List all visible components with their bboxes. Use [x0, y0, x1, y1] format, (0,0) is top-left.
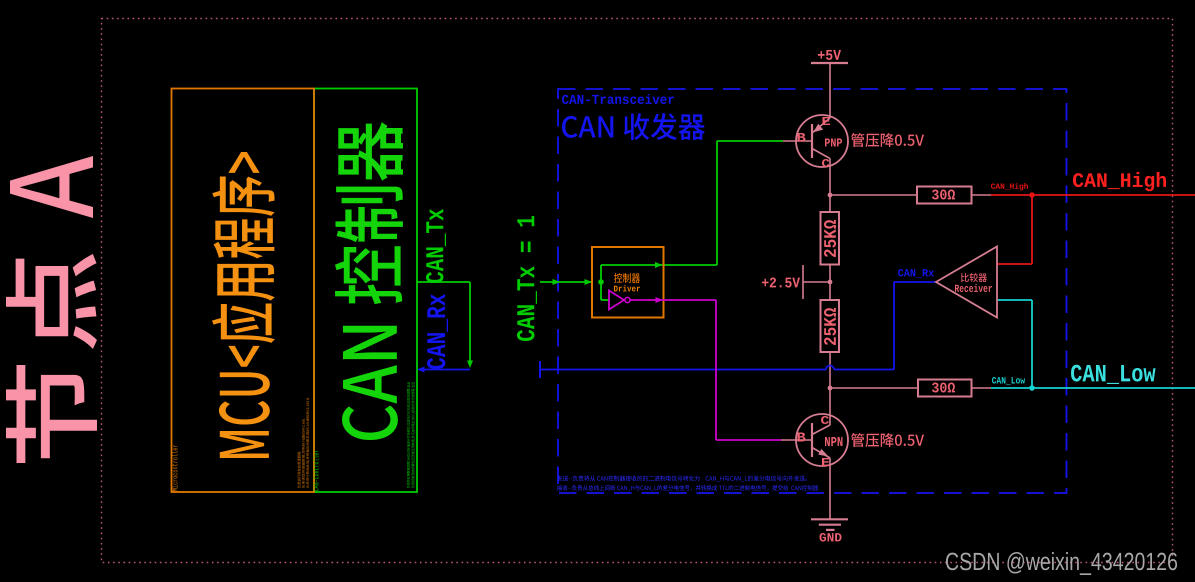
note line 1 (blue)	[557, 476, 807, 482]
Q2 label B	[798, 433, 806, 442]
ground label GND	[819, 533, 841, 542]
wire CAN_High bus	[991, 194, 1195, 196]
title CAN-Transceiver	[562, 94, 674, 104]
comparator label 比较器	[961, 273, 987, 282]
transistor Q2 circle	[796, 414, 848, 466]
tiny note column (green) 1	[407, 382, 411, 488]
net label CAN_High (big)	[1073, 172, 1166, 191]
arrow TX 2	[585, 279, 593, 285]
wire node H to R1	[829, 195, 831, 212]
wire CAN_Tx horizontal	[417, 281, 470, 283]
Q2 label NPN	[825, 437, 842, 446]
Q2 drop note 管压降0.5V	[851, 433, 924, 447]
Q1 label PNP	[825, 139, 842, 147]
tiny note column (orange) 1	[297, 451, 300, 488]
driver label Driver	[614, 285, 640, 291]
label CAN_Tx = 1	[517, 216, 537, 341]
wire Q1 collector down	[829, 159, 831, 196]
Q1 emitter arrow (PNP)	[813, 124, 823, 133]
wire node L to Q2	[829, 388, 831, 425]
power +2.5V bar	[802, 265, 804, 299]
resistor R2 25KΩ box	[821, 300, 840, 352]
resistor R3 30Ω box	[917, 187, 972, 204]
Q2 base lead	[781, 439, 812, 441]
wire inverter out	[630, 299, 716, 301]
watermark CSDN @weixin_43420126	[946, 552, 1177, 575]
MCU label MCU<应用程序>	[212, 152, 275, 458]
MCU box U1 (orange)	[172, 89, 315, 493]
net label CAN_High (small)	[991, 183, 1028, 190]
ground bar 3	[826, 529, 835, 531]
wire CAN_Low to comparator horiz	[997, 299, 1032, 301]
Q1 emitter line	[812, 118, 830, 133]
wire R3 out	[972, 194, 992, 196]
junction CAN_High	[1029, 192, 1035, 198]
wire +2.5V to node M	[803, 281, 830, 283]
resistor R3 value 30Ω	[932, 189, 955, 199]
Q1 base lead	[783, 140, 812, 142]
net label CAN_Rx	[427, 294, 448, 369]
junction node H	[828, 193, 833, 198]
power +5V label	[818, 50, 841, 60]
junction TX node	[598, 279, 604, 285]
net label CAN_Tx	[426, 209, 446, 283]
Q1 drop note 管压降0.5V	[851, 133, 924, 147]
Q2 emitter arrow (NPN)	[818, 449, 828, 457]
Q2 collector line	[812, 425, 830, 435]
wire R2 to node L	[829, 352, 831, 388]
wire magenta to NPN base	[716, 439, 781, 441]
arrow inverter out	[656, 297, 664, 303]
Q1 label E	[822, 117, 829, 125]
resistor R4 value 30Ω	[932, 382, 955, 392]
wire TX across driver	[601, 264, 717, 266]
driver box U3	[592, 247, 664, 318]
Q2 emitter line	[812, 448, 830, 459]
wire TX to inverter	[600, 282, 602, 300]
ground bar 2	[819, 524, 841, 526]
Q1 base bar	[811, 124, 813, 158]
CAN controller label CAN 控制器	[335, 122, 403, 440]
tiny note column (orange) 3	[306, 397, 309, 488]
wire CAN_Low bus	[991, 387, 1195, 389]
power +5V bar	[811, 62, 848, 64]
wire CAN_High to comparator vert	[1031, 195, 1033, 264]
wire CAN_Rx stub	[424, 369, 470, 371]
Q2 label C	[821, 416, 829, 424]
wire CAN_Low to comparator vert	[1031, 300, 1033, 388]
tiny note column (orange) 2	[302, 418, 305, 488]
tiny label CAN-Controller	[313, 450, 319, 491]
wire R4 out	[972, 387, 992, 389]
arrow CAN_Tx down	[467, 361, 473, 369]
comparator U4 triangle	[936, 247, 997, 318]
Q1 collector line	[812, 149, 830, 159]
resistor R1 value 25KΩ	[824, 220, 836, 257]
wire TX to PNP base	[717, 140, 783, 142]
junction node M	[828, 280, 833, 285]
wire TX up inside driver	[600, 265, 602, 282]
wire Q2 emitter down	[829, 458, 831, 519]
Q1 label B	[798, 133, 806, 141]
wire to R3	[830, 194, 917, 196]
wire CAN_Tx vertical	[469, 282, 471, 362]
wire R1 to node M	[829, 265, 831, 283]
wire RX to comparator	[894, 281, 936, 283]
resistor R2 value 25KΩ	[824, 308, 836, 345]
note line 2 (blue)	[557, 485, 818, 491]
comparator label Receiver	[955, 284, 992, 292]
ground bar 1	[811, 518, 848, 520]
wire node M to R2	[829, 282, 831, 300]
wire RX hop over pink	[826, 366, 834, 370]
Q2 label E	[822, 458, 829, 466]
inverter bubble	[625, 297, 630, 302]
CAN controller box U2 (green)	[314, 89, 417, 493]
Q1 label C	[822, 159, 830, 167]
junction CAN_Low	[1029, 385, 1035, 391]
CAN transceiver dashed box	[558, 89, 1067, 493]
wire magenta riser	[715, 300, 717, 440]
arrow TX 1	[553, 279, 561, 285]
title CAN 收发器	[562, 113, 705, 140]
net label CAN_Low (big)	[1071, 365, 1156, 384]
wire to R4	[830, 387, 918, 389]
arrow TX 3	[655, 262, 663, 268]
driver label 控制器	[614, 273, 640, 283]
node A label 节点 A	[6, 365, 97, 463]
wire RX bus terminal tick	[539, 361, 541, 378]
junction node L	[828, 386, 833, 391]
wire CAN_High to comparator horiz	[997, 263, 1032, 265]
wire RX bus left	[540, 369, 826, 371]
power +2.5V label	[762, 278, 800, 288]
net label CAN_Rx (transceiver)	[898, 269, 934, 278]
wire RX riser	[893, 282, 895, 370]
resistor R1 25KΩ box	[821, 212, 840, 265]
tiny label Microcontroller	[172, 445, 178, 491]
tiny note column (green) 2	[411, 382, 415, 488]
Q2 base bar	[811, 423, 813, 457]
net label CAN_Low (small)	[992, 377, 1025, 385]
transistor Q1 circle	[796, 115, 848, 167]
resistor R4 30Ω box	[918, 380, 972, 397]
wire +5V to PNP	[829, 63, 831, 118]
wire RX bus right	[834, 369, 894, 371]
arrow CAN_Rx into controller	[417, 367, 425, 373]
wire TX into transceiver	[540, 281, 592, 283]
inverter gate	[609, 291, 624, 310]
wire TX riser to PNP	[716, 141, 718, 265]
